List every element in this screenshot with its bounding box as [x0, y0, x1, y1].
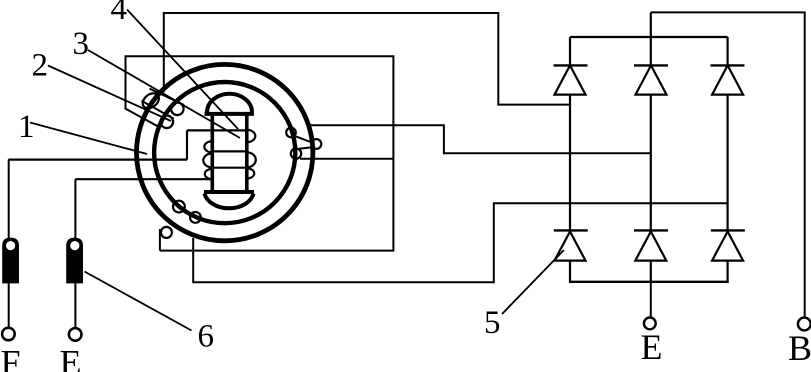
column 1 upper: [569, 37, 571, 65]
stator winding group A outer loop: [140, 90, 162, 111]
diode D6 bottom cathode bar: [711, 229, 745, 231]
field coil left bump 1: [204, 141, 212, 152]
stator core inner circle: [154, 82, 295, 223]
leader line 4: [127, 10, 238, 130]
column 1 middle: [569, 95, 571, 231]
stator winding group C inner loop 1: [173, 201, 185, 213]
field coil turn line 2: [212, 150, 247, 152]
field coil lead step vertical: [186, 130, 188, 159]
column 3 middle: [726, 95, 728, 231]
field coil right bump 1: [247, 130, 255, 142]
terminal F: [2, 328, 15, 341]
field coil turn line 1: [187, 129, 247, 131]
rotor bottom dome: [205, 194, 254, 209]
stator winding group C crossing wire 2: [172, 200, 193, 217]
stator winding group A inner loop 1: [171, 103, 184, 116]
rectifier bottom bus: [569, 281, 729, 283]
rotor top bar: [205, 112, 254, 116]
rotor body right edge: [245, 114, 249, 191]
svg-text:F: F: [1, 343, 21, 372]
stator winding group B outer loop: [312, 139, 322, 149]
diode D2 top cathode bar: [634, 64, 668, 66]
leader line 3: [88, 50, 240, 138]
leader line 1: [30, 123, 147, 155]
wire B+ top: [651, 12, 805, 317]
leader line 6: [85, 272, 192, 331]
svg-text:3: 3: [73, 26, 90, 62]
field coil left bump 3: [205, 169, 212, 179]
column 3 lower: [726, 261, 728, 282]
field coil turn line 3: [212, 167, 247, 169]
stator winding group B inner loop 2: [291, 148, 301, 158]
diode D2 top triangle: [636, 65, 667, 94]
phase 1 wire from group A: [164, 13, 570, 105]
stator winding group A crossing wire 1: [150, 89, 185, 105]
wire E right: [650, 282, 652, 318]
field coil right bump 3: [247, 168, 255, 178]
diode D4 bottom cathode bar: [554, 229, 588, 231]
field coil right bump 2: [247, 152, 256, 167]
brush E: [66, 238, 83, 284]
wire brush E to field coil: [75, 178, 212, 180]
column 1 lower: [569, 261, 571, 282]
rotor body left edge: [211, 114, 215, 191]
svg-text:1: 1: [18, 109, 35, 145]
rotor top dome: [207, 94, 252, 113]
wire brush F to terminal F: [8, 283, 10, 328]
field coil left bump 2: [203, 153, 212, 167]
leader line 5: [502, 250, 564, 314]
svg-text:4: 4: [111, 0, 128, 27]
diode D5 bottom triangle: [635, 232, 666, 261]
svg-text:E: E: [60, 343, 82, 372]
column 3 upper: [726, 37, 728, 65]
svg-text:B: B: [788, 328, 811, 368]
brush F: [2, 238, 19, 284]
diode D6 bottom triangle: [712, 232, 743, 261]
diode D3 top cathode bar: [711, 64, 745, 66]
terminal B: [798, 318, 811, 331]
neutral wire from group B: [300, 158, 393, 160]
diode D3 top triangle: [712, 65, 743, 94]
neutral wire from group A: [126, 56, 394, 250]
neutral wire from group C: [159, 229, 161, 251]
stator winding group A crossing wire 2: [142, 101, 174, 119]
rectifier top bus: [570, 36, 728, 38]
phase 2 wire from group B: [309, 125, 651, 153]
column 2 upper: [650, 12, 652, 65]
wire brush E to terminal E: [74, 283, 76, 328]
diode D1 top triangle: [555, 65, 586, 94]
svg-text:2: 2: [32, 47, 49, 83]
diode D1 top cathode bar: [554, 64, 588, 66]
wire brush F up: [8, 160, 10, 238]
stator winding group B crossing wire 2: [299, 147, 312, 149]
diode D4 bottom triangle: [555, 232, 586, 261]
stator winding group C outer loop: [161, 227, 172, 238]
stator winding group B inner loop 1: [286, 128, 296, 138]
terminal E left: [69, 328, 82, 341]
stator winding group C inner loop 2: [190, 212, 201, 223]
leader line 2: [48, 66, 171, 122]
wire brush E up: [74, 179, 76, 238]
column 2 lower: [650, 261, 652, 282]
stator core outer circle: [137, 64, 313, 240]
diode D5 bottom cathode bar: [634, 229, 668, 231]
wire brush F to field coil: [8, 159, 187, 161]
rotor bottom bar: [204, 190, 254, 194]
svg-text:6: 6: [198, 319, 215, 355]
column 2 middle: [650, 95, 652, 231]
stator winding group C crossing wire 1: [160, 215, 182, 230]
stator winding group A inner loop 2: [161, 116, 174, 129]
phase 3 wire from group C: [193, 203, 727, 282]
stator winding group B crossing wire 1: [295, 136, 312, 142]
svg-text:5: 5: [484, 305, 501, 341]
terminal E right: [644, 318, 656, 330]
svg-text:E: E: [641, 327, 663, 367]
